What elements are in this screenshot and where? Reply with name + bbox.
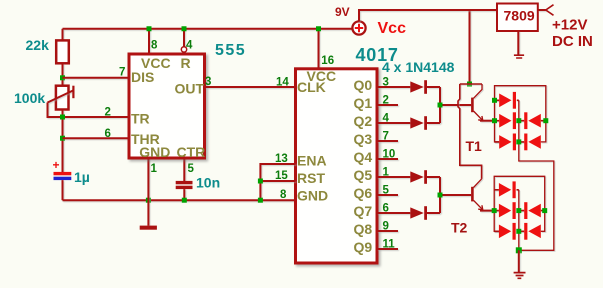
potentiometer P1 100k	[48, 86, 74, 110]
svg-text:DC IN: DC IN	[552, 33, 593, 50]
wire 7809 output	[538, 9, 546, 11]
svg-text:9V: 9V	[335, 5, 350, 19]
T1 LED block rows wires	[495, 100, 546, 142]
wire T1 top link	[460, 83, 482, 85]
svg-text:555: 555	[215, 42, 246, 59]
svg-text:Q6: Q6	[354, 185, 373, 201]
svg-text:8: 8	[151, 40, 158, 52]
capacitor C2 10n	[176, 181, 193, 189]
label 22k	[26, 37, 50, 53]
svg-text:RST: RST	[297, 170, 325, 186]
ground 7809	[514, 31, 524, 58]
T2 block junctions	[492, 208, 548, 234]
resistor R1 22k	[56, 40, 69, 63]
wire T1 base bus	[440, 87, 471, 123]
svg-text:GND: GND	[139, 144, 170, 160]
wire 555 CTR pin5	[183, 158, 185, 181]
LED L6	[499, 181, 516, 198]
wire 4017 pin16 drop	[318, 29, 320, 69]
diode D2 Q2	[410, 116, 440, 130]
label 10n	[196, 175, 220, 191]
T2 LED block frame	[494, 176, 545, 231]
svg-text:13: 13	[275, 153, 288, 165]
svg-text:2: 2	[383, 94, 389, 106]
label T2	[451, 220, 468, 236]
svg-text:+12V: +12V	[552, 17, 587, 34]
svg-text:22k: 22k	[26, 37, 50, 53]
svg-text:3: 3	[383, 76, 389, 88]
wire Vcc to 7809	[359, 10, 497, 21]
LED L5	[524, 134, 541, 151]
svg-text:ENA: ENA	[297, 153, 327, 169]
svg-text:DIS: DIS	[131, 69, 154, 85]
T2 LED block rows wires	[494, 190, 545, 232]
ic 4017 box U2	[296, 69, 378, 263]
label 100k	[14, 90, 45, 106]
svg-text:Q2: Q2	[354, 113, 373, 129]
label Vcc	[378, 20, 407, 37]
pin circle 555 pin4	[181, 47, 186, 52]
transistor Q1 T1	[471, 84, 494, 121]
node rail junction	[258, 198, 263, 203]
label +12V	[552, 17, 587, 34]
wire top rail	[63, 28, 352, 30]
ground common cathode	[514, 250, 526, 278]
Q pin wires and numbers	[377, 87, 410, 249]
svg-text:4 x 1N4148: 4 x 1N4148	[382, 59, 455, 75]
svg-text:16: 16	[321, 55, 334, 67]
svg-text:GND: GND	[297, 187, 328, 203]
wire long vcc to T2 with jog	[458, 84, 482, 179]
node Vcc junction pin8	[147, 26, 152, 31]
LED L10	[524, 223, 541, 240]
svg-text:7: 7	[119, 67, 125, 79]
transistor Q2 T2	[471, 179, 494, 211]
node RST junction	[258, 179, 263, 184]
wire 555 pin4 drop	[183, 29, 185, 47]
svg-text:Q9: Q9	[354, 239, 373, 255]
wire 22k to pot	[62, 63, 64, 85]
svg-text:11: 11	[383, 238, 396, 250]
node T2 base junction	[438, 193, 443, 198]
svg-text:4: 4	[186, 40, 193, 52]
ground 555	[140, 200, 157, 230]
svg-text:Vcc: Vcc	[378, 20, 407, 37]
svg-text:Q8: Q8	[354, 221, 373, 237]
svg-text:10: 10	[383, 148, 396, 160]
wire 555 pin8 drop	[148, 29, 150, 54]
wire T2 cathode column	[518, 190, 520, 251]
svg-text:5: 5	[383, 184, 390, 196]
wire pot wiper to TR	[48, 103, 130, 118]
4017 left pin wires ENA RST	[260, 164, 295, 200]
wire THR pin6	[63, 137, 130, 139]
svg-text:15: 15	[275, 170, 288, 182]
label 4017	[356, 45, 399, 65]
svg-text:8: 8	[280, 189, 287, 201]
LED L3	[524, 112, 541, 129]
label 1u	[74, 169, 90, 185]
LED L2	[499, 112, 516, 129]
op 555 box U1	[129, 54, 205, 158]
4017 pin names	[297, 68, 372, 255]
svg-text:R: R	[181, 55, 191, 71]
svg-text:CLK: CLK	[297, 79, 326, 95]
wire pot bottom chain	[62, 110, 64, 173]
LED L9	[499, 223, 516, 240]
wire Vcc drop to T1	[469, 10, 471, 84]
svg-text:TR: TR	[131, 110, 150, 126]
svg-text:Q3: Q3	[354, 131, 373, 147]
T1 block junctions	[492, 98, 548, 145]
svg-text:14: 14	[276, 76, 289, 88]
diode D3 Q5	[410, 170, 440, 184]
svg-text:Q7: Q7	[354, 203, 373, 219]
capacitor C1 1u electrolytic	[53, 158, 72, 180]
wire 10n to rail	[183, 189, 185, 200]
svg-text:7809: 7809	[504, 8, 535, 24]
wire DIS pin7	[63, 77, 130, 79]
node T1 base junction	[438, 103, 443, 108]
LED L8	[524, 202, 541, 219]
labels 13 15 8	[275, 153, 288, 201]
svg-text:1: 1	[151, 163, 158, 175]
svg-text:6: 6	[105, 128, 111, 140]
node DIS junction	[60, 75, 65, 80]
LED L1	[499, 92, 516, 109]
node 10n junction	[182, 198, 187, 203]
svg-text:10n: 10n	[196, 175, 220, 191]
node Vcc junction pin16	[316, 26, 321, 31]
svg-text:Q5: Q5	[354, 167, 373, 183]
555 pin names	[131, 55, 205, 160]
svg-text:Q4: Q4	[354, 149, 373, 165]
svg-text:4: 4	[383, 112, 390, 124]
diode D1 Q0	[410, 80, 440, 94]
svg-text:Q0: Q0	[354, 77, 373, 93]
wire T1 cathode column	[519, 100, 554, 250]
label DC IN	[552, 33, 593, 50]
connector DC in chevron	[546, 5, 554, 16]
svg-text:T2: T2	[451, 220, 468, 236]
label 14	[276, 76, 289, 88]
wire cap to rail	[62, 180, 64, 200]
label 4 x 1N4148	[382, 59, 455, 75]
555 pin numbers	[105, 40, 212, 175]
T1 LED block frame	[495, 86, 546, 142]
node T1 collector junction	[467, 82, 472, 87]
label 9V	[335, 5, 350, 19]
node gnd junction 555	[146, 198, 151, 203]
svg-text:1: 1	[383, 166, 390, 178]
svg-text:Q1: Q1	[354, 95, 373, 111]
node THR junction	[60, 136, 65, 141]
svg-text:6: 6	[383, 202, 389, 214]
label 555	[215, 42, 246, 59]
svg-text:2: 2	[105, 107, 111, 119]
wire 22k top drop	[62, 29, 64, 41]
svg-text:100k: 100k	[14, 90, 45, 106]
label T1	[466, 138, 483, 154]
wire OUT to CLK	[205, 86, 296, 88]
LED L4	[499, 134, 516, 151]
LED L7	[499, 202, 516, 219]
regulator U3 7809	[497, 4, 538, 32]
svg-text:5: 5	[188, 163, 195, 175]
node common cathode junction	[516, 247, 522, 253]
svg-text:7: 7	[383, 130, 389, 142]
svg-text:1µ: 1µ	[74, 169, 90, 185]
label 16	[321, 55, 334, 67]
node TR junction	[60, 115, 65, 120]
svg-text:9: 9	[383, 220, 389, 232]
power Vcc symbol	[352, 21, 365, 34]
svg-text:CTR: CTR	[177, 144, 206, 160]
node Vcc junction pin4	[182, 26, 187, 31]
wire T2 base bus	[440, 177, 471, 213]
wire 555 GND pin1	[147, 158, 149, 200]
svg-text:+: +	[53, 158, 60, 172]
svg-text:OUT: OUT	[175, 80, 205, 96]
diode D4 Q7	[410, 206, 440, 220]
wire bottom rail	[63, 199, 296, 201]
svg-text:T1: T1	[466, 138, 483, 154]
